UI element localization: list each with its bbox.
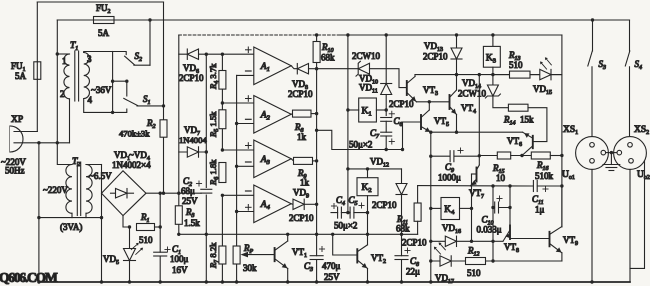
svg-text:15k: 15k (520, 115, 534, 125)
svg-text:T2: T2 (72, 157, 80, 168)
wire divider rail segs (221, 54, 223, 282)
svg-text:C3: C3 (304, 261, 313, 273)
junction left vertex rail at y217.6 (100, 216, 103, 219)
junction K2 rail row234 (366, 233, 369, 236)
svg-text:FU2: FU2 (96, 3, 111, 15)
switch S1 stubs (113, 81, 164, 106)
capacitor C8 (395, 256, 408, 260)
svg-text:510k: 510k (535, 171, 554, 181)
transistor VT5 (421, 110, 431, 132)
junction rail430 bottom (429, 280, 432, 283)
wire right edge rail (630, 161, 645, 268)
svg-text:VT2: VT2 (371, 253, 386, 265)
plus sign A3 (246, 143, 252, 149)
wire R10 bottom lead (316, 63, 318, 69)
junction VT5 emitter row (429, 131, 432, 134)
transistor VT2 (357, 245, 367, 269)
diode VD11 (381, 84, 392, 95)
wire VT3 emitter to VT4 base (417, 101, 450, 103)
svg-text:16V: 16V (172, 265, 188, 275)
svg-text:2: 2 (60, 89, 65, 99)
wire T2 primary bottom lead (71, 213, 73, 217)
switch S4 leads (629, 20, 631, 137)
plus C11 (543, 186, 548, 191)
switch S4 blade (625, 51, 630, 66)
wire VT1 emitter down (287, 269, 289, 283)
wire XP top prong to FU1 rail (14, 131, 37, 133)
junction VD9 node (315, 203, 318, 206)
socket XS1 (576, 137, 609, 170)
wire VD8 to node (309, 68, 317, 70)
LED VD15 (540, 69, 551, 79)
wire rail x493 (492, 186, 494, 261)
wire VT5 collector up (428, 102, 430, 110)
wire K2 feed y168.9 (348, 168, 402, 170)
resistor R7 (219, 246, 226, 264)
svg-text:470k±3k: 470k±3k (119, 129, 150, 139)
svg-text:1N4002×4: 1N4002×4 (112, 160, 151, 170)
transistor VT9 (550, 227, 562, 253)
junction R9 node (315, 159, 318, 162)
wire K1 rail x347.9 (347, 35, 349, 213)
wire T2 secondary top to bridge (86, 164, 102, 166)
wire VT2 emitter down (367, 269, 369, 283)
resistor R13 (510, 71, 531, 78)
wire node to zener VD10 (317, 68, 359, 70)
wire VT5 base rail (403, 122, 422, 150)
potentiometer RP wiper arrow (241, 252, 275, 258)
wire C9 to VT7 rail (454, 155, 479, 157)
transformer T1 primary winding (64, 54, 70, 99)
transistor VT3 (407, 77, 417, 102)
resistor R4 (219, 71, 226, 90)
wire K2 bottom rail (367, 196, 369, 245)
svg-text:4: 4 (88, 95, 93, 105)
wire R13 to VD15 (530, 74, 540, 76)
wire K2 top lead (367, 169, 369, 178)
plus C5 (359, 203, 364, 208)
svg-text:VT1: VT1 (292, 247, 307, 259)
wire row y132.2 (431, 131, 523, 133)
plus C3 (319, 246, 324, 251)
junction S2 rail on wire B (148, 18, 151, 21)
junction T1 primary top (56, 52, 59, 55)
capacitor C11 (533, 181, 537, 192)
junction A1+ tap (221, 53, 224, 56)
resistor R14 (508, 104, 528, 111)
svg-text:C4: C4 (336, 195, 345, 207)
svg-text:5A: 5A (15, 71, 27, 81)
relay K3 (483, 46, 500, 67)
svg-text:C7: C7 (370, 128, 380, 140)
wire XS2 bottom lead (629, 169, 631, 282)
junction VD17 left (429, 259, 432, 262)
wire R11 top lead (417, 186, 419, 203)
plus C1 (165, 247, 170, 252)
svg-text:2CP10: 2CP10 (289, 213, 314, 223)
svg-text:510: 510 (467, 268, 481, 278)
wire XP bottom prong (14, 142, 70, 144)
svg-text:R1: R1 (140, 212, 150, 224)
junction K4 left (429, 207, 432, 210)
transformer T2 primary winding (66, 165, 72, 214)
svg-text:1.5k: 1.5k (184, 218, 200, 228)
wire K4 rail up (471, 174, 473, 208)
junction DC+ at R3 rail (177, 192, 180, 195)
junction R1-VD5 node (128, 225, 131, 228)
svg-text:T1: T1 (70, 41, 78, 52)
junction R10 on wire C (315, 33, 318, 36)
wire left rail x38.9 down to bottom (38, 143, 40, 282)
svg-text:VT9: VT9 (563, 235, 578, 247)
junction K1 rail top (346, 33, 349, 36)
junction summing rail row234 (315, 233, 318, 236)
svg-text:R14: R14 (503, 115, 516, 127)
plug XP (10, 126, 23, 152)
capacitor C9 (450, 151, 454, 162)
svg-text:68μ: 68μ (181, 186, 195, 196)
plus C2 (196, 181, 201, 186)
junction rail206 row234 (205, 233, 208, 236)
wire R8 to rail (311, 113, 317, 115)
wire C op-amp block top rail (dashed part) (179, 34, 340, 36)
wire VT4 collector up (456, 75, 458, 90)
relay K4 (441, 198, 460, 220)
svg-text:22μ: 22μ (406, 267, 420, 277)
svg-text:VT5: VT5 (434, 116, 449, 128)
wire R16 to rail562 (550, 155, 562, 157)
wire DC+ from bridge right vertex (146, 192, 201, 194)
junction VD16 left (429, 240, 432, 243)
wire VT8 emitter row (493, 240, 503, 242)
svg-text:VD5: VD5 (103, 254, 119, 266)
svg-text:10: 10 (496, 173, 506, 183)
resistor R11 (414, 203, 421, 221)
transistor VT7 (470, 165, 479, 186)
junction C10 right rail510 (508, 206, 511, 209)
svg-text:Q606.COM: Q606.COM (0, 270, 58, 285)
wire rail x561.9 (561, 75, 563, 227)
diode VD12 (396, 184, 407, 195)
wire VD5 top lead (129, 227, 131, 249)
junction VT1 emitter bottom (286, 280, 289, 283)
svg-text:50μ×2: 50μ×2 (334, 221, 357, 231)
resistor R6 (219, 163, 226, 183)
junction VD5 on bottom wire (128, 280, 131, 283)
svg-text:1000μ: 1000μ (438, 173, 461, 183)
svg-text:50Hz: 50Hz (5, 166, 25, 176)
svg-text:VT4: VT4 (461, 103, 476, 115)
wire T1 terminal 3 to S2 rail (84, 52, 113, 53)
svg-text:XS2: XS2 (634, 125, 649, 136)
wire bridge left rail to bottom (101, 218, 103, 282)
junction VD11 on wire C (385, 33, 388, 36)
junction VD7 rail206 (205, 150, 208, 153)
wire K3 bottom lead (492, 67, 494, 74)
junction bridge-left-rail bottom (100, 280, 103, 283)
switch S3 leads (591, 20, 594, 137)
junction R3 bottom on wire234 (177, 233, 180, 236)
wire T1 primary bottom to XP prong wire (69, 99, 71, 143)
svg-text:~36V: ~36V (91, 85, 112, 95)
LED VD17 (440, 256, 451, 266)
ground symbol (603, 153, 620, 171)
svg-text:VD16: VD16 (442, 223, 461, 235)
wire VT1 collector up (287, 234, 289, 241)
diode VD7 (187, 147, 198, 157)
wire inverting bus rail (236, 75, 238, 282)
transformer T2 core (76, 162, 78, 216)
wire C9 row left (431, 155, 450, 157)
svg-text:0.033μ: 0.033μ (477, 225, 502, 235)
switch S1 blade (124, 98, 138, 105)
socket XS2 (614, 137, 647, 170)
junction VT5 base rail on wire149 (401, 148, 404, 151)
wire R1 right lead (155, 226, 161, 228)
wire C6-C7 link (385, 121, 387, 132)
svg-text:25V: 25V (182, 196, 198, 206)
junction riser on summing rail (315, 129, 318, 132)
junction VT2 base stub row234 (331, 233, 334, 236)
wire VD14 top lead (492, 75, 494, 85)
transistor VT8 (503, 226, 550, 242)
wire VD12 rail down to C8 (401, 196, 403, 283)
svg-text:VD9: VD9 (293, 188, 309, 200)
junction R12 rail493 (491, 259, 494, 262)
junction S1 feed on rail x112.6 (111, 80, 114, 83)
svg-text:Uo2: Uo2 (637, 170, 650, 181)
wire A2 plus stub (222, 102, 253, 104)
wire S2 left rail x112.6 (112, 52, 114, 113)
transistor VT1 (275, 241, 288, 269)
wire VD17 row (431, 260, 562, 262)
plus C8 (405, 248, 410, 253)
plus sign A2 (246, 96, 252, 102)
wire left rail x37 (FU1 branch) (36, 2, 38, 132)
junction XP bottom prong to left rail (37, 141, 40, 144)
svg-text:VT8: VT8 (504, 242, 519, 254)
wire VT9 collector up (561, 186, 563, 227)
wire R9 to rail (313, 160, 317, 162)
wire VD5 bottom lead (129, 261, 131, 283)
wire y217.6 bridge negative return (39, 217, 102, 219)
wire A2 output (291, 113, 292, 116)
wire K1 left lead (348, 109, 359, 111)
wire A4 plus stub (237, 211, 254, 213)
wire VD11 bottom lead (385, 95, 387, 116)
switch S3 blade (588, 51, 593, 66)
svg-text:C5: C5 (349, 195, 358, 207)
svg-text:VD12: VD12 (370, 157, 389, 169)
svg-text:VT3: VT3 (423, 85, 438, 97)
junction rail493 row186 (491, 184, 494, 187)
potentiometer RP body (233, 246, 240, 264)
capacitor C6 (381, 118, 392, 122)
wire VT3 collector up (414, 75, 416, 77)
wire VT9 emitter down corner (561, 253, 563, 261)
diode VD9 (293, 199, 304, 209)
junction R7 bottom (221, 280, 224, 283)
LED VD5 emission arrows (131, 243, 143, 255)
transistor VT4 (450, 90, 457, 115)
junction summing node VD8/R10 (315, 67, 318, 70)
plus C7 (389, 139, 394, 144)
transformer T2 secondary winding (86, 165, 92, 214)
svg-text:C6: C6 (394, 116, 403, 128)
capacitor C2 (201, 189, 212, 193)
svg-text:100μ: 100μ (170, 254, 189, 264)
minus sign A3 (246, 161, 252, 163)
plus C10 (497, 196, 502, 201)
plus sign A4 (246, 205, 252, 211)
wire rail x510 (509, 186, 511, 225)
svg-text:510: 510 (139, 235, 153, 245)
LED VD5 (124, 249, 136, 261)
wire bridge left vertex rail (101, 165, 103, 218)
wire summing rail x316.6 (316, 69, 318, 235)
switch S2 blade (125, 56, 135, 65)
junction VD16 right on rail471 (470, 240, 473, 243)
svg-text:2CP10: 2CP10 (372, 200, 397, 210)
svg-text:S2: S2 (135, 51, 143, 63)
junction C9 row on K-rail (429, 155, 432, 158)
resistor R10 (313, 42, 320, 63)
wire VD12 top lead (401, 169, 403, 184)
junction K2 feed wire (346, 167, 349, 170)
resistor R3 (175, 206, 182, 225)
op-amp A1 (254, 47, 291, 85)
junction rail x38.9 bottom wire (37, 280, 40, 283)
wire T2 primary top lead (57, 143, 72, 165)
wire rail x206 lower (205, 195, 207, 282)
wire T2 secondary bottom lead (85, 213, 87, 217)
resistor R12 (466, 258, 486, 265)
LED VD17 emission arrows (434, 242, 446, 254)
svg-text:1N4004: 1N4004 (179, 135, 207, 145)
diode VD13 (451, 48, 462, 59)
svg-text:2CP10: 2CP10 (179, 73, 204, 83)
svg-text:VT6: VT6 (507, 136, 522, 148)
wire R10 top lead (316, 35, 318, 42)
wire R15-R16 link (511, 155, 532, 157)
svg-text:5A: 5A (98, 28, 110, 38)
wire T1 terminal 4 (84, 99, 127, 113)
resistor R16 (531, 152, 550, 159)
svg-text:2CP10: 2CP10 (389, 99, 414, 109)
wire rail471 down to VD16 row (471, 208, 473, 241)
wire K3 top lead (492, 35, 494, 46)
plus C6 (389, 111, 394, 116)
svg-text:68k: 68k (396, 224, 410, 234)
junction R8 node (315, 112, 318, 115)
svg-text:(3VA): (3VA) (60, 222, 82, 232)
wire K3row to R13 (493, 74, 510, 76)
junction C5 right on K2 rail (366, 211, 369, 214)
svg-text:R7 8.2k: R7 8.2k (208, 242, 220, 269)
wire VD14 bottom to R14 (493, 96, 509, 108)
wire VD16 row (431, 240, 493, 242)
junction R2 bottom on DC+ wire (162, 192, 165, 195)
wire A1 plus input (206, 53, 254, 55)
junction R1 to C1 rail (159, 225, 162, 228)
svg-text:VD17: VD17 (435, 273, 454, 285)
wire R11 bottom lead (417, 221, 419, 234)
svg-text:2CW10: 2CW10 (352, 51, 380, 61)
wire A1 minus stub (237, 74, 254, 76)
junction VD12 rail bottom (400, 280, 403, 283)
junction rail x112.6 to terminal4 wire (111, 111, 114, 114)
resistor R5 (219, 110, 226, 129)
capacitor C7 (381, 132, 392, 136)
wire T1 primary top lead (57, 53, 69, 55)
junction C1 bottom wire (159, 280, 162, 283)
junction bus A2- (235, 122, 238, 125)
svg-text:510: 510 (509, 60, 523, 70)
fuse FU1 (34, 62, 41, 80)
junction RP bottom (235, 280, 238, 283)
wire rail x206 upper (205, 54, 207, 187)
wire C corner down to relay contact row (561, 35, 563, 75)
wire A1 output to VD8 (291, 66, 297, 69)
wire K1 right lead (376, 109, 386, 111)
junction VT7 rail row (478, 73, 481, 76)
junction K3 bottom row (491, 73, 494, 76)
junction K1 left lead (346, 108, 349, 111)
junction XS1 lead bottom (590, 280, 593, 283)
junction VT7 collector node (478, 154, 481, 157)
junction rail206 bottom wire (205, 280, 208, 283)
wire rail x430.8 (430, 132, 432, 282)
junction VD6 cathode rail206 (205, 53, 208, 56)
junction rail562 row186 (560, 184, 563, 187)
svg-text:S3: S3 (599, 59, 607, 71)
transformer T1 secondary winding (84, 53, 90, 99)
wire bridge bottom vertex down (123, 216, 130, 227)
junction socket link (610, 151, 613, 154)
wire R15 row (479, 155, 497, 157)
wire C4C5 row (331, 212, 368, 214)
minus sign A4 (246, 190, 252, 192)
wire VD7 leads (179, 151, 207, 153)
junction rail x38.9 T2 branch (37, 216, 40, 219)
wire A4 output to VD9 (291, 203, 293, 206)
svg-text:S1: S1 (143, 94, 151, 106)
svg-text:3: 3 (87, 54, 92, 64)
wire C7 bottom lead (385, 136, 387, 150)
junction S3 on wire B (591, 18, 594, 21)
wire bottom ground bus (39, 281, 630, 283)
junction rail493 C10 (491, 206, 494, 209)
wire VT4 emitter down (456, 115, 458, 133)
capacitor C1 (154, 252, 167, 256)
LED VD15 emission arrows (540, 57, 551, 69)
svg-text:1μ: 1μ (535, 205, 545, 215)
wire VT7 collector rail (478, 75, 480, 165)
junction C7 on wire149 (385, 148, 388, 151)
svg-text:68k: 68k (321, 53, 335, 63)
wire row y234 (179, 233, 418, 235)
transformer T1 core (74, 51, 76, 101)
wire right corner rail x163.5 (mains to S1/R2) (163, 2, 165, 193)
op-amp A3 (254, 140, 291, 178)
wire B mains switched (FU2 row) (57, 19, 629, 21)
junction VT2 emitter bottom (366, 280, 369, 283)
wire VD15 to corner rail (551, 74, 562, 76)
op-amp A2 (254, 96, 291, 134)
switch S2 stub and contact (113, 52, 150, 66)
svg-text:2CP10: 2CP10 (423, 52, 448, 62)
plus sign A1 (246, 47, 252, 53)
